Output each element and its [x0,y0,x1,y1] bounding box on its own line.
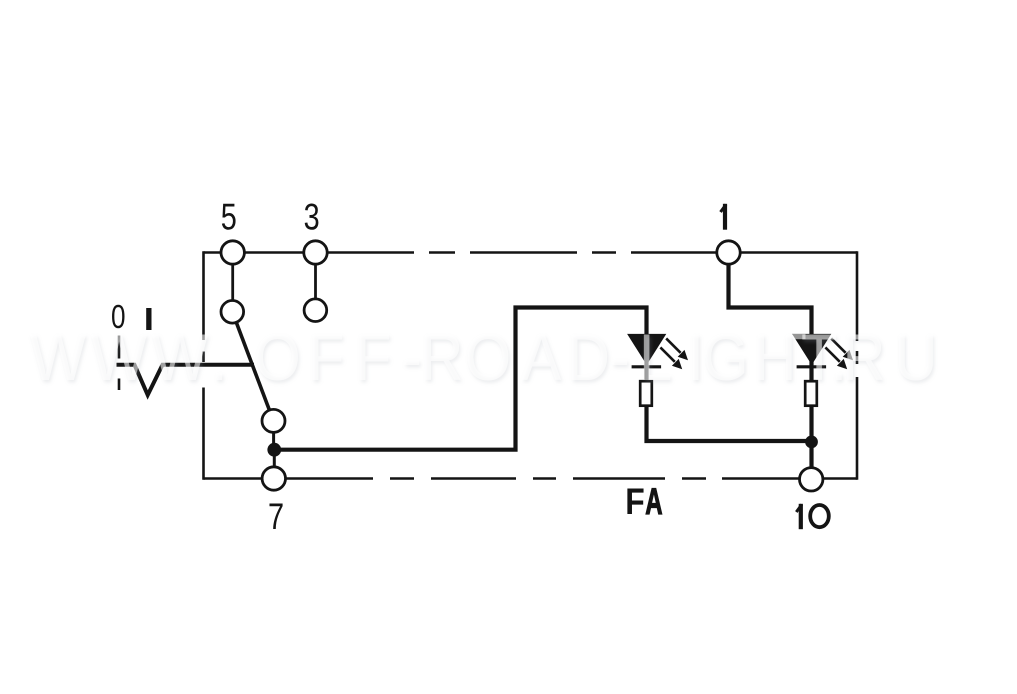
svg-text:G: G [703,321,749,395]
svg-text:R: R [843,321,886,395]
svg-text:F: F [308,321,344,395]
wire: terminal 1 to LED2 (thick) [729,262,812,381]
svg-text:.: . [211,321,228,395]
svg-text:D: D [567,321,610,395]
wire: stub terminal 5 to pivot contact [231,264,234,302]
svg-text:W: W [152,321,209,395]
LED D1 arrow 1 [666,338,680,352]
terminal 1 circle [717,241,740,264]
switch lever (movable contact arm) [236,322,269,410]
svg-text:F: F [625,480,644,522]
svg-text:H: H [754,321,797,395]
svg-text:-: - [610,321,630,395]
wire: junction 7 to LED1 branch (thick) [274,308,646,450]
junction dot at terminal 7 [267,443,281,457]
dashed enclosure border left [202,251,205,480]
pin label 1 [721,204,727,230]
wire: lever contact to junction dot [272,432,275,444]
dashed enclosure border right [856,251,859,480]
svg-text:U: U [895,321,938,395]
svg-text:L: L [639,321,672,395]
lever bottom contact circle [262,409,285,432]
LED D2 arrow 1 [831,338,845,352]
LED D1 triangle [628,334,665,364]
svg-text:7: 7 [268,497,284,538]
watermark gray strip over LED D2 top-left [793,334,806,339]
svg-text:3: 3 [304,197,320,238]
LED D2 cathode bar [797,365,827,368]
resistor R2 [805,381,817,406]
actuator linkage ticks and zigzag [117,336,255,396]
svg-text:A: A [645,480,662,522]
svg-text:A: A [522,321,562,395]
LED D1 arrow 2 [660,347,674,361]
dashed enclosure border top [204,251,858,254]
terminal 3 circle [304,241,327,264]
dashed enclosure border bottom [204,477,858,480]
terminal 7 circle [262,467,285,490]
wire: junction dot to terminal 7 [273,456,276,468]
LED D1 cathode bar [632,365,662,368]
svg-text:O: O [465,321,511,395]
wire: LED2 resistor to terminal 10 (thick) [809,405,813,469]
resistor R1 [640,381,652,406]
junction dot at terminal 10 [805,436,818,449]
svg-text:R: R [421,321,464,395]
pivot contact circle under 5 [221,301,244,324]
LED D2 [793,334,853,405]
watermark WWW.OFF-ROAD-LIGHT.RU [30,321,937,395]
svg-text:-: - [402,321,422,395]
LED D2 arrow 2 [825,347,839,361]
contact circle under 3 [304,299,327,322]
pin label 10 [796,504,829,529]
LED D1 [628,334,688,405]
terminal 5 circle [221,241,244,264]
svg-text:F: F [355,321,391,395]
terminal 10 circle [800,468,823,491]
svg-text:W: W [30,321,87,395]
svg-text:I: I [688,321,705,395]
svg-text:W: W [91,321,148,395]
wire: stub terminal 3 to contact [314,264,317,300]
svg-text:O: O [255,321,301,395]
wire: LED1 resistor bottom to junction at 10 (thick) [647,405,812,442]
LED D2 triangle [793,334,830,364]
label I (on position) [146,308,151,330]
svg-text:5: 5 [221,197,237,238]
